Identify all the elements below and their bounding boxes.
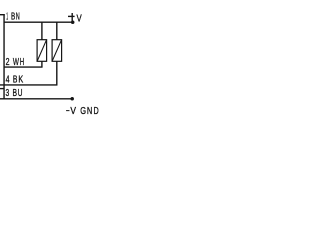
svg-text:1: 1 [6, 11, 8, 22]
svg-text:U: U [18, 88, 23, 99]
svg-text:B: B [11, 11, 15, 22]
svg-text:G: G [80, 106, 86, 117]
svg-text:−: − [66, 106, 70, 117]
svg-text:2: 2 [6, 57, 10, 68]
svg-text:B: B [13, 74, 18, 85]
svg-text:4: 4 [6, 74, 10, 85]
svg-text:N: N [16, 11, 20, 22]
svg-text:V: V [70, 106, 76, 117]
svg-text:N: N [87, 106, 92, 117]
svg-text:D: D [94, 106, 99, 117]
svg-text:V: V [77, 13, 82, 24]
svg-text:W: W [13, 57, 19, 68]
svg-text:3: 3 [6, 88, 10, 99]
svg-text:K: K [18, 74, 23, 85]
svg-text:B: B [13, 88, 18, 99]
svg-text:H: H [20, 57, 24, 68]
